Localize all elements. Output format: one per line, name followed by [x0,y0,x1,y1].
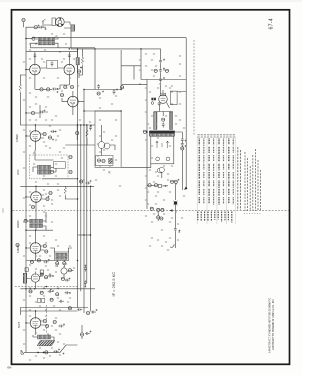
value label 7 [43,78,45,79]
heater dropping resistor [76,58,80,65]
value label 89 [73,59,75,60]
value label 172 [65,44,67,45]
value label 130 [103,132,105,133]
value label 220 [155,172,157,173]
IF transformer T1 secondary [38,42,54,45]
IF transformer T1 primary [38,37,54,41]
polarity mark 27 [165,185,167,187]
value label 57 [55,330,57,331]
cap chain capacitor B [181,142,184,147]
junction dot 7 [77,178,78,179]
value label 68 [149,92,151,93]
svg-text:A PHOTOFACT STANDARD NOTATION: A PHOTOFACT STANDARD NOTATION SCHEMATIC [268,297,271,353]
junction dot 24 [80,124,81,125]
value label 152 [151,238,153,239]
junction dot 34 [83,234,84,235]
V7b caps [61,277,64,280]
power transformer winding left [154,112,157,130]
polarity mark 21 [163,59,165,61]
chart row 8 [232,139,234,205]
value label 46 [35,274,37,275]
scan blemish left edge [2,208,4,213]
tube chart rules [197,137,235,225]
junction dot 8 [90,186,91,187]
arrow terminus [184,186,187,190]
wire: B+ rail 3 [83,90,85,309]
output transformer winding bar [149,131,175,134]
wire: heater chain [78,49,83,79]
grid caps above V4 [31,111,34,114]
value label 35 [45,216,47,217]
wire: coil drop [70,31,72,48]
plate caps right [64,85,67,88]
value label 221 [167,180,169,181]
junction dot 12 [25,135,26,136]
value label 38 [43,236,45,237]
junction dot 23 [77,124,78,125]
value label 199 [51,326,53,327]
antenna symbol [21,350,24,354]
polarity mark 11 [48,259,50,261]
polarity mark 3 [57,88,59,90]
top left stub circle [22,18,25,21]
value label 238 [145,66,147,67]
value label 79 [163,214,165,215]
tube V7 1st audio [31,274,39,282]
value label 175 [35,120,37,121]
value label 84 [179,76,181,77]
value label 12 [29,107,31,108]
polarity mark 29 [96,309,98,311]
pilot lamp [174,201,177,204]
wire: small left box [121,66,141,80]
value label 164 [171,104,173,105]
chart name 2 [200,212,202,222]
chart caption line b [239,150,241,210]
value label 72 [157,138,159,139]
arrow tuning slug [42,19,46,21]
wire: osc coil [33,150,56,172]
value label 39 [55,240,57,241]
value label 65 [99,152,101,153]
value label 121 [59,334,61,335]
chart row 1 [198,139,200,204]
value label 203 [43,358,45,359]
value label 144 [157,176,159,177]
value label 71 [169,124,171,125]
value label 188 [23,222,25,223]
value label 126 [99,108,101,109]
junction dot 2 [94,48,95,49]
value label 189 [45,222,47,223]
value label 11 [47,97,49,98]
chart name 8 [221,212,223,223]
value label 135 [157,88,159,89]
junction dot 17 [25,288,26,289]
cap column capacitor 2 [159,68,162,73]
power transformer frame [154,112,173,117]
value label 113 [43,296,45,297]
note 1 [244,152,246,211]
chart row 4 [213,139,215,205]
tube V2 2nd IF [64,64,75,75]
wire: box left edge [140,49,142,80]
wire: ant coil [33,335,54,341]
value label 223 [155,196,157,197]
switch arrow [170,209,173,211]
tube V8 output [30,318,41,329]
junction dot 13 [25,196,26,197]
value label 10 [35,97,37,98]
wire: x95 riser [94,49,96,90]
value label 6 [29,78,31,79]
value label 193 [23,276,25,277]
junction dot 19 [35,186,36,187]
cap chain capacitor A [181,137,184,142]
value label 60 [59,355,61,356]
value label 163 [179,104,181,105]
wire: V9 leads [160,90,187,112]
polarity mark 6 [55,131,57,133]
value label 169 [51,34,53,35]
value label 147 [169,192,171,193]
tone caps boxes [38,298,41,302]
value label 149 [145,216,147,217]
junction dot 26 [86,124,87,125]
value label 180 [23,152,25,153]
chart name 10 [227,212,229,221]
value label 75 [153,182,155,183]
wire: feed line x147 [146,80,148,210]
tuner inner caps [97,159,100,162]
value label 153 [161,246,163,247]
value label 63 [99,136,101,137]
value label 136 [169,88,171,89]
osc coil winding A [38,165,51,169]
junction dot 27 [77,260,78,261]
value label 33 [83,180,85,181]
T4 winding [56,253,67,256]
wire: bus y125 [20,124,95,126]
polarity mark 23 [163,77,165,79]
tube V6 det-avc [30,243,41,254]
value label 142 [183,128,185,129]
value label 233 [153,76,155,77]
polarity mark 10 [90,180,92,182]
value label 91 [61,91,63,92]
wire: stub [23,22,25,28]
rectifier socket box [170,91,177,105]
junction dot 10 [25,112,26,113]
osc trimmer box [53,162,65,169]
bottom rail caps [86,311,89,314]
wire: switch row [147,184,168,187]
value label 108 [35,269,37,270]
cap column circles [154,69,157,72]
value label 231 [167,250,169,251]
value label 133 [109,166,111,167]
value label 117 [45,310,47,311]
value label 211 [165,116,167,117]
V7 caps [40,273,43,276]
value label 212 [175,116,177,117]
value label 92 [77,86,79,87]
value label 202 [29,360,31,361]
value label 235 [171,86,173,87]
value label 184 [55,176,57,177]
tuner inner box [96,156,114,166]
wire: right osc [77,125,87,145]
value label 94 [29,131,31,132]
value label 101 [57,190,59,191]
svg-text:12BA6: 12BA6 [16,245,20,253]
T3 tp [24,219,27,222]
wire: B+ rail 2 [80,125,82,291]
wire: T4 [50,248,72,267]
chart row 3 [208,139,210,204]
value label 62 [115,96,117,97]
value label 3 [59,52,61,53]
wire: box bottom edge [141,79,186,81]
value label 157 [163,60,165,61]
value label 194 [55,272,57,273]
wire: bus y111 [84,110,121,112]
wire: V1 V2 leads [26,52,69,89]
wire: top edge to cap column [141,49,161,59]
V5 screen res [64,186,66,196]
value label 102 [29,205,31,206]
polarity mark 18 [63,353,65,355]
wire: bus y260 [26,260,54,262]
speaker plug box [52,18,56,25]
svg-text:IF = 262.5 KC: IF = 262.5 KC [111,272,116,297]
scan blemish bottom left [7,367,12,369]
value label 127 [111,104,113,105]
value label 106 [57,246,59,247]
tube V4 converter [30,131,41,142]
switch row box [158,184,161,187]
V3 side cap [60,93,63,96]
value label 228 [177,224,179,225]
bottom bus components [68,307,71,310]
value label 61 [99,98,101,99]
chart row 2 [203,139,205,204]
value label 229 [169,238,171,239]
value label 49 [43,288,45,289]
value label 125 [49,356,51,357]
polarity mark 17 [58,349,60,351]
value label 151 [161,230,163,231]
wire: below jack [161,172,163,178]
chart name 1 [197,212,199,221]
value label 67 [159,84,161,85]
value label 64 [111,140,113,141]
value label 70 [155,124,157,125]
tuner tube Va [98,142,105,149]
value label 95 [43,142,45,143]
junction dot 33 [46,286,47,287]
value label 232 [155,66,157,67]
cap above T3 [31,205,34,208]
value label 213 [147,124,149,125]
junction dot 30 [146,131,147,132]
value label 186 [23,198,25,199]
lower cap pair [80,333,83,336]
cap column capacitor 3 [159,77,162,82]
value label 132 [99,166,101,167]
value label 173 [23,62,25,63]
value label 112 [29,296,31,297]
speaker body box [151,136,174,164]
polarity mark 16 [63,324,65,326]
value label 118 [59,310,61,311]
polarity mark 9 [48,196,50,198]
chart name 9 [224,212,226,221]
wire: tuner to output jack [121,164,150,168]
V6 caps [43,244,46,247]
avc caps right [80,180,83,183]
output jack [159,167,164,172]
polarity mark 14 [52,290,54,292]
value label 77 [175,184,177,185]
osc feedback resistor [86,129,88,139]
wire: V7b [64,266,74,277]
value label 168 [29,44,31,45]
value label 234 [165,86,167,87]
antenna coil bar [38,335,51,339]
value label 24 [33,153,35,154]
value label 128 [99,120,101,121]
wire: cap column joins [160,64,162,93]
wire: heater bus [71,48,141,50]
chart name 4 [207,212,209,222]
value label 187 [51,200,53,201]
value label 148 [145,200,147,201]
small triode V7b [61,268,67,274]
cap x114 [113,89,116,94]
value label 56 [43,330,45,331]
value label 159 [151,70,153,71]
value label 80 [171,218,173,219]
value label 28 [57,184,59,185]
polarity mark 19 [102,91,104,93]
dashed chassis line upper [13,210,290,212]
filter tp [162,118,165,121]
interstage box [47,60,58,68]
value label 122 [43,341,45,342]
wire: bus y291 [20,288,95,290]
wire: rails bottom join [84,308,91,313]
junction dot 31 [25,38,26,39]
value label 30 [51,204,53,205]
bottom tp [45,351,48,354]
tube V3 det [68,96,79,107]
cap in box [51,61,54,66]
value label 207 [115,160,117,161]
note 6 [257,160,259,211]
value label 5 [61,62,63,63]
oscillator coil dashed box [30,155,69,179]
value label 165 [183,196,185,197]
value label 50 [57,288,59,289]
osc cap right [76,131,79,134]
tone switch box [40,270,43,274]
svg-text:COPYRIGHT BY HOWARD W. SAMS &: COPYRIGHT BY HOWARD W. SAMS & CO., INC. [272,298,275,350]
cap column capacitor 1 [159,59,162,64]
polarity mark 28 [179,230,181,232]
value label 200 [23,344,25,345]
wire: speaker leads [44,20,71,28]
value label 36 [51,222,53,223]
line cord capacitor [174,227,177,232]
T4 winding 2 [56,257,67,259]
polarity mark 12 [52,275,54,277]
IF transformer T3 primary [30,219,43,223]
value label 2 [44,50,46,51]
wire: bus y230 [26,229,53,231]
value label 45 [55,266,57,267]
polarity mark 32 [84,286,86,288]
value label 166 [175,212,177,213]
value label 183 [23,168,25,169]
value label 195 [23,300,25,301]
value label 40 [61,258,63,259]
wire: bus y51 [26,50,78,52]
junction dot 20 [35,124,36,125]
value label 66 [139,84,141,85]
rail caps x85 [84,266,87,271]
value label 26 [35,182,37,183]
value label 85 [119,186,121,187]
wire: B+ rail 4 [86,125,88,283]
value label 177 [23,130,25,131]
value label 174 [23,100,25,101]
value label 198 [23,330,25,331]
chart row 6 [223,139,225,205]
polarity mark 24 [185,140,187,142]
value label 215 [151,146,153,147]
value label 74 [167,174,169,175]
value label 192 [67,256,69,257]
value label 137 [145,100,147,101]
value label 73 [149,170,151,171]
polarity mark 15 [69,292,71,294]
value label 178 [49,148,51,149]
dashed chassis line lower [15,286,78,288]
T4 terminals [56,262,59,265]
value label 107 [69,246,71,247]
trimmer cap row [34,26,37,29]
value label 227 [169,222,171,223]
note 4 [252,155,254,211]
wire: lamp feed [175,183,177,200]
cap chain tp [181,147,184,150]
value label 81 [157,240,159,241]
wire: below chassis [158,205,175,248]
tone cap circle [50,298,53,301]
wire: AVC rail [90,186,92,308]
caps row y292 [29,290,32,293]
value label 27 [47,184,49,185]
value label 150 [151,222,153,223]
chart name 11 [231,212,233,223]
value label 55 [55,318,57,319]
value label 167 [181,218,183,219]
svg-text:P: P [56,35,58,39]
value label 217 [151,158,153,159]
chart name 7 [217,212,219,220]
caps row y261 [30,260,33,263]
